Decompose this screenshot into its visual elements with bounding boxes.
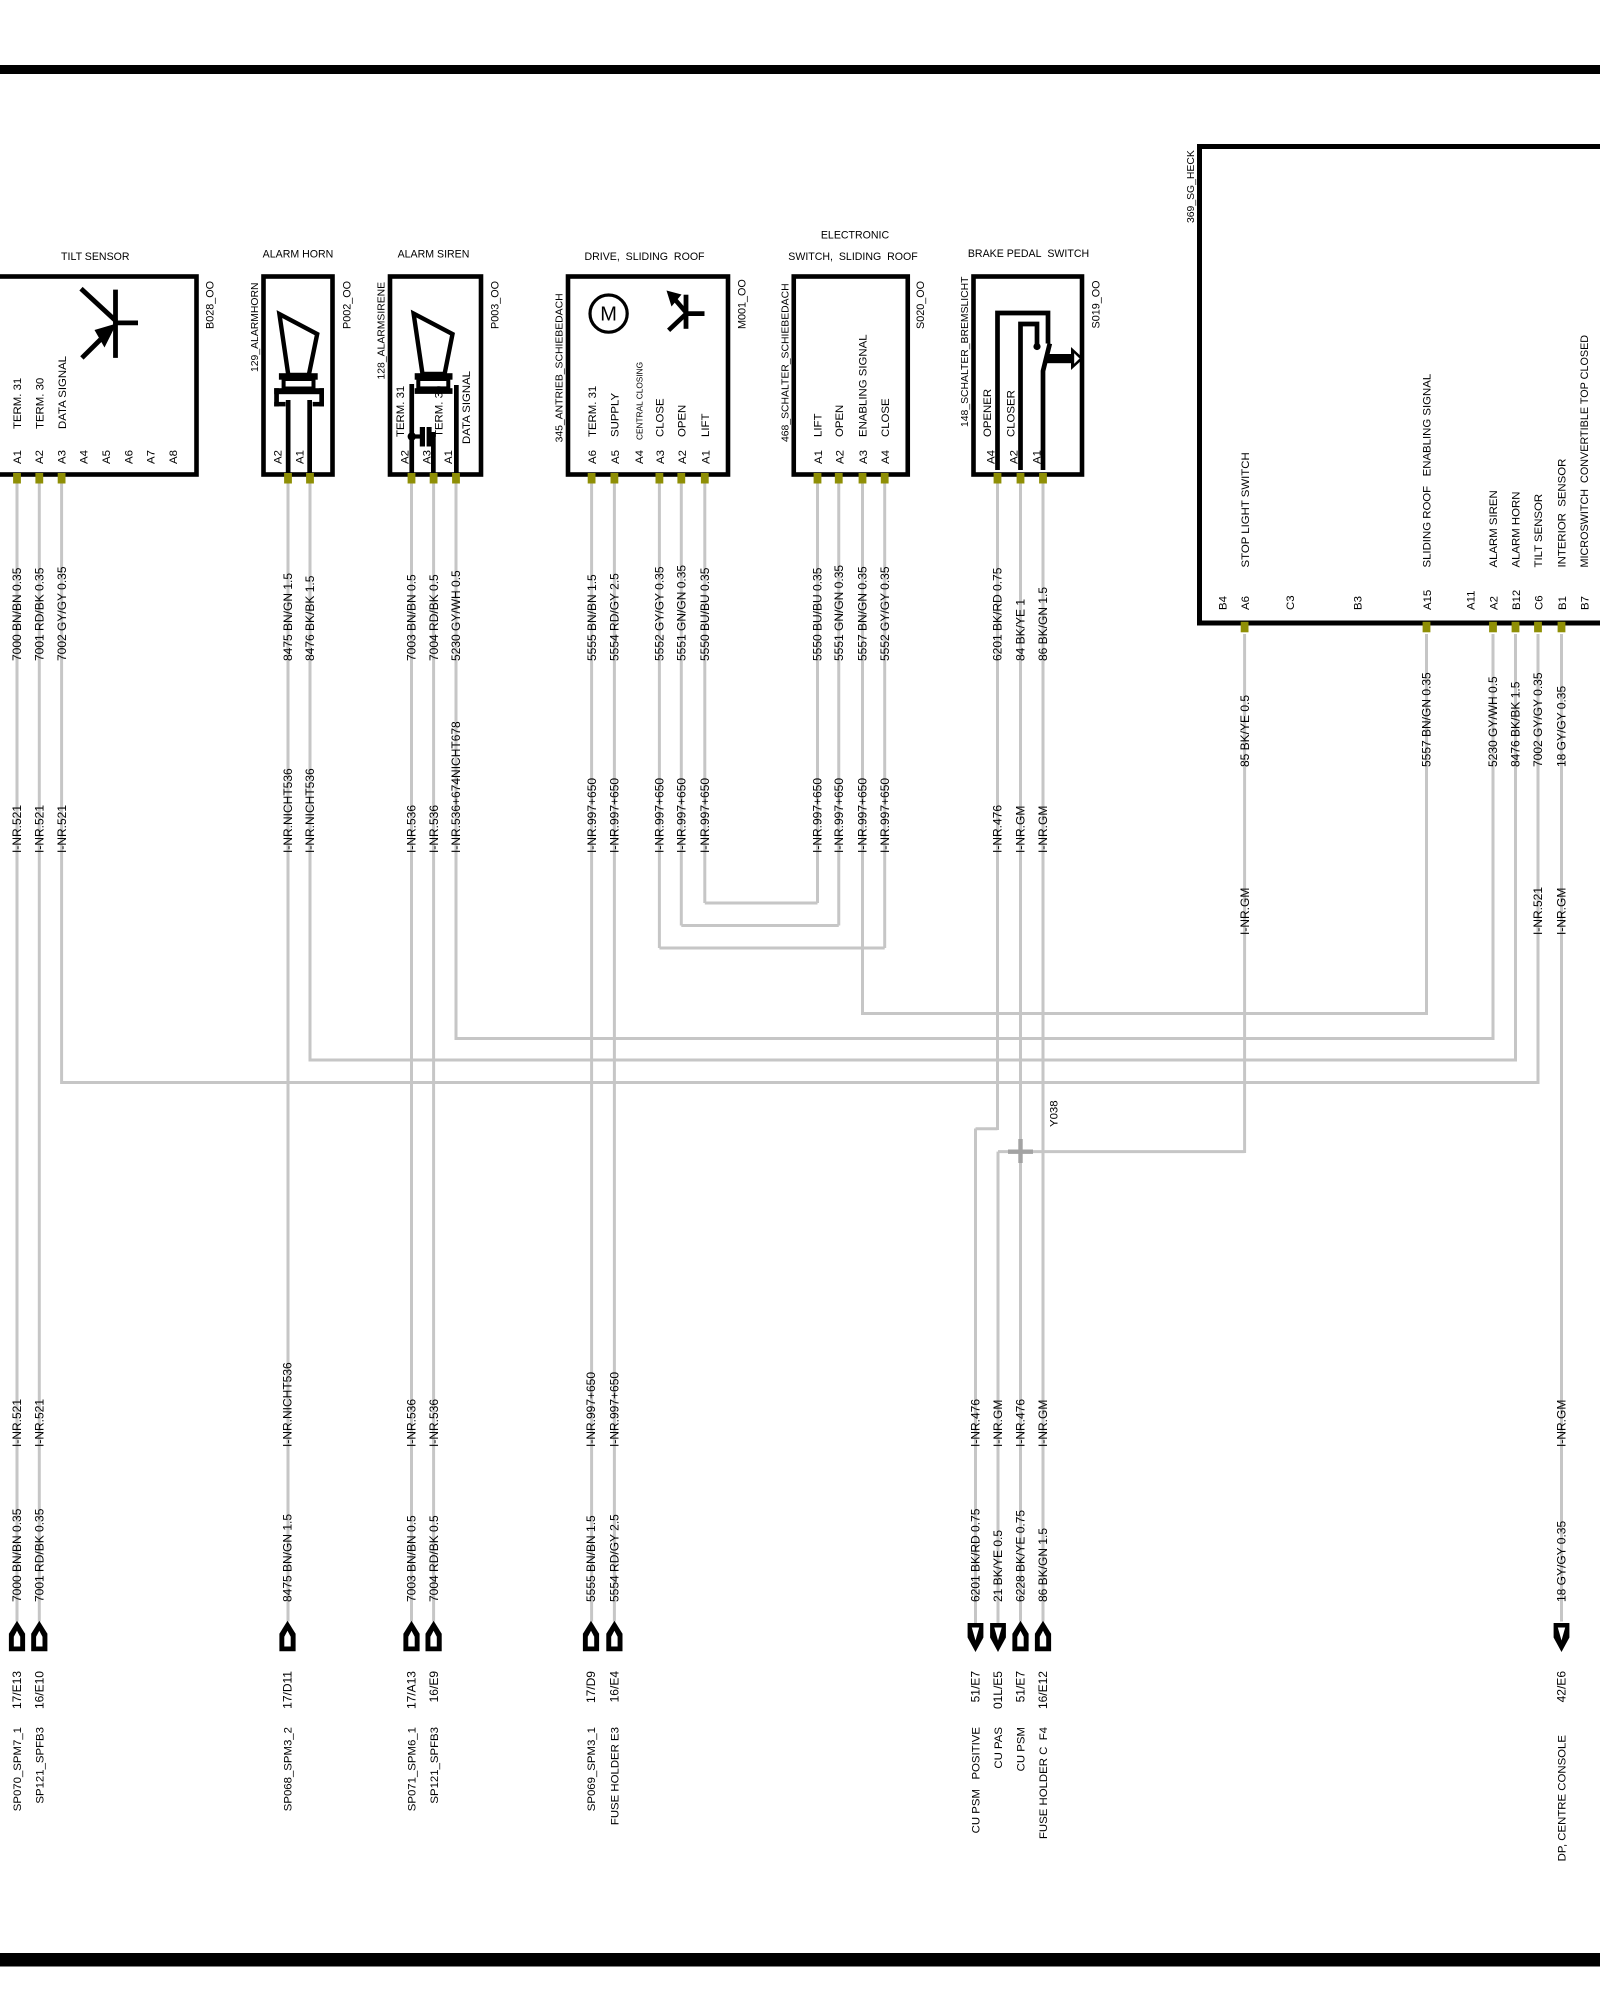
svg-text:C6: C6 <box>1534 595 1546 610</box>
svg-text:B4: B4 <box>1218 596 1230 610</box>
svg-text:6201 BK/RD 0.75: 6201 BK/RD 0.75 <box>969 1508 983 1602</box>
switch pin A3 ENABLING SIGNAL <box>858 334 870 464</box>
connector arrow out <box>1035 1621 1051 1652</box>
svg-text:FUSE HOLDER C F4: FUSE HOLDER C F4 <box>1038 1727 1050 1839</box>
svg-text:I-NR.997+650: I-NR.997+650 <box>584 1372 598 1447</box>
switch pin stubs <box>814 473 889 484</box>
svg-text:TERM. 30: TERM. 30 <box>434 386 446 437</box>
svg-text:5230 GY/WH 0.5: 5230 GY/WH 0.5 <box>449 570 463 661</box>
wire bus OPEN drive A2 to switch A2 <box>681 924 838 927</box>
svg-text:OPEN: OPEN <box>834 405 846 437</box>
svg-text:51/E7: 51/E7 <box>969 1671 983 1703</box>
connector arrow out <box>279 1621 295 1652</box>
drive pin A2 OPEN <box>677 405 689 464</box>
wire 6201 BK/RD lower drop <box>974 1129 977 1624</box>
svg-text:DATA SIGNAL: DATA SIGNAL <box>57 356 69 429</box>
svg-text:51/E7: 51/E7 <box>1014 1671 1028 1703</box>
svg-text:7002 GY/GY 0.35: 7002 GY/GY 0.35 <box>1531 672 1545 767</box>
svg-text:I-NR.536: I-NR.536 <box>405 1399 419 1447</box>
svg-text:17/D11: 17/D11 <box>281 1671 295 1709</box>
wire bus DATA SIGNAL siren A1 to ecu A2 <box>456 1037 1493 1040</box>
connector arrow in <box>968 1623 984 1652</box>
svg-text:42/E6: 42/E6 <box>1555 1671 1569 1703</box>
svg-text:I-NR.521: I-NR.521 <box>1531 887 1545 935</box>
svg-text:86 BK/GN 1.5: 86 BK/GN 1.5 <box>1036 1528 1050 1602</box>
wire bus 7002 tilt A3 to ecu C6 <box>62 1081 1538 1084</box>
svg-text:CENTRAL CLOSING: CENTRAL CLOSING <box>635 362 645 440</box>
svg-text:A4: A4 <box>634 450 646 464</box>
connector arrow in <box>990 1623 1006 1652</box>
switch pin A1 LIFT <box>813 414 825 464</box>
svg-text:16/E9: 16/E9 <box>427 1671 441 1703</box>
svg-text:I-NR.476: I-NR.476 <box>1014 1399 1028 1447</box>
wire 8475 BN/GN horn A2 <box>287 480 290 1622</box>
svg-text:21 BK/YE 0.5: 21 BK/YE 0.5 <box>991 1530 1005 1602</box>
svg-text:7004 RD/BK 0.5: 7004 RD/BK 0.5 <box>427 574 441 661</box>
svg-text:7000 BN/BN 0.35: 7000 BN/BN 0.35 <box>10 1508 24 1602</box>
svg-text:A2: A2 <box>273 450 285 464</box>
svg-text:5557 BN/GN 0.35: 5557 BN/GN 0.35 <box>1420 672 1434 767</box>
svg-text:84 BK/YE 1: 84 BK/YE 1 <box>1014 599 1028 661</box>
connector arrow out <box>426 1621 442 1652</box>
svg-text:SP121_SPFB3: SP121_SPFB3 <box>35 1727 47 1804</box>
tilt sensor B028 box <box>0 277 197 475</box>
control unit pin B12 <box>1511 492 1523 610</box>
wire 5552 GY/GY drive A3 drop <box>658 480 661 948</box>
svg-text:01L/E5: 01L/E5 <box>991 1671 1005 1709</box>
svg-text:A8: A8 <box>168 450 180 464</box>
svg-text:CU PAS: CU PAS <box>993 1727 1005 1769</box>
tilt sensor pin A5 <box>101 450 113 464</box>
svg-text:86 BK/GN 1.5: 86 BK/GN 1.5 <box>1036 587 1050 661</box>
tilt sensor pin A4 <box>79 450 91 464</box>
svg-text:Y038: Y038 <box>1049 1100 1061 1127</box>
brake switch actuation arrow <box>1047 347 1084 370</box>
svg-text:17/D9: 17/D9 <box>584 1671 598 1703</box>
wire 21 BK/YE lower drop <box>997 1152 1000 1623</box>
svg-text:I-NR.GM: I-NR.GM <box>1014 806 1028 853</box>
tilt sensor pin A2 <box>34 378 46 464</box>
wire bus ENABLING SIGNAL switch A3 to ecu A15 <box>863 1012 1427 1015</box>
brake pin A2 CLOSER <box>1006 390 1021 464</box>
svg-text:A1: A1 <box>813 450 825 464</box>
svg-text:345_ANTRIEB_SCHIEBEDACH: 345_ANTRIEB_SCHIEBEDACH <box>555 293 566 442</box>
svg-text:148_SCHALTER_BREMSLICHT: 148_SCHALTER_BREMSLICHT <box>960 276 971 427</box>
connector arrow out <box>1012 1621 1028 1652</box>
svg-text:LIFT: LIFT <box>700 414 712 437</box>
svg-text:SP070_SPM7_1: SP070_SPM7_1 <box>12 1727 24 1811</box>
svg-text:I-NR.GM: I-NR.GM <box>1555 1400 1569 1447</box>
bottom border bar <box>0 1953 1600 1967</box>
wire 7001 RD/BK tilt A2 <box>38 480 41 1622</box>
control unit pin B3 <box>1353 596 1365 610</box>
wire 86 BK/GN brake A1 <box>1042 480 1045 1622</box>
drive tilt symbol <box>667 291 705 331</box>
control unit pin stubs <box>1241 622 1566 633</box>
svg-text:I-NR.521: I-NR.521 <box>33 805 47 853</box>
svg-text:A1: A1 <box>1032 450 1044 464</box>
svg-text:A6: A6 <box>123 450 135 464</box>
alarm horn icon <box>274 314 324 474</box>
brake pedal switch S019 box <box>974 277 1083 475</box>
svg-text:ALARM HORN: ALARM HORN <box>1511 492 1523 568</box>
svg-text:I-NR.NICHT536: I-NR.NICHT536 <box>303 768 317 853</box>
wire jog brake A4 to lower 6201 drop <box>976 1127 998 1130</box>
svg-text:A2: A2 <box>834 450 846 464</box>
svg-text:A6: A6 <box>1240 596 1252 610</box>
svg-text:I-NR.521: I-NR.521 <box>33 1399 47 1447</box>
svg-text:17/E13: 17/E13 <box>10 1671 24 1709</box>
wire 5557 BN/GN ecu A15 drop <box>1425 634 1428 1015</box>
svg-text:TERM. 31: TERM. 31 <box>12 378 24 429</box>
connector arrow out <box>606 1621 622 1652</box>
svg-text:A5: A5 <box>610 450 622 464</box>
svg-text:I-NR.521: I-NR.521 <box>10 805 24 853</box>
svg-text:16/E12: 16/E12 <box>1036 1671 1050 1709</box>
wire bus CLOSE drive A3 to switch A4 <box>659 947 884 950</box>
control unit pin C6 <box>1533 494 1545 610</box>
svg-text:8476 BK/BK 1.5: 8476 BK/BK 1.5 <box>1509 681 1523 767</box>
alarm horn P002 box <box>264 277 333 475</box>
svg-text:I-NR.GM: I-NR.GM <box>1036 1400 1050 1447</box>
wire 7004 RD/BK siren A3 <box>432 480 435 1622</box>
alarm siren pin A2 TERM. 31 <box>395 386 412 464</box>
svg-text:DP, CENTRE CONSOLE: DP, CENTRE CONSOLE <box>1557 1735 1569 1862</box>
svg-text:ALARM HORN: ALARM HORN <box>263 249 334 261</box>
wire 5555 BN/BN drive A6 <box>590 480 593 1622</box>
svg-text:S019_OO: S019_OO <box>1091 280 1103 328</box>
wire 5230 GY/WH ecu A2 drop <box>1492 634 1495 1040</box>
svg-text:INTERIOR SENSOR: INTERIOR SENSOR <box>1557 459 1569 568</box>
svg-text:A4: A4 <box>79 450 91 464</box>
svg-text:M: M <box>600 304 617 326</box>
svg-text:A1: A1 <box>295 450 307 464</box>
svg-text:S020_OO: S020_OO <box>915 281 927 329</box>
svg-text:SP068_SPM3_2: SP068_SPM3_2 <box>283 1727 295 1811</box>
svg-text:I-NR.997+650: I-NR.997+650 <box>675 778 689 853</box>
tilt sensor pin A3 <box>56 356 68 464</box>
svg-text:STOP LIGHT SWITCH: STOP LIGHT SWITCH <box>1240 452 1252 567</box>
drive pin stubs <box>588 473 709 484</box>
tilt sensor pin A6 <box>123 450 135 464</box>
svg-text:6228 BK/YE 0.75: 6228 BK/YE 0.75 <box>1014 1510 1028 1602</box>
wire 5554 RD/GY drive A5 <box>613 480 616 1622</box>
svg-text:A1: A1 <box>700 450 712 464</box>
svg-text:7001 RD/BK 0.35: 7001 RD/BK 0.35 <box>33 567 47 661</box>
svg-text:I-NR.997+650: I-NR.997+650 <box>856 778 870 853</box>
svg-text:I-NR.GM: I-NR.GM <box>1555 888 1569 935</box>
svg-text:5552 GY/GY 0.35: 5552 GY/GY 0.35 <box>653 566 667 661</box>
drive pin A3 CLOSE <box>655 398 667 464</box>
svg-text:I-NR.NICHT536: I-NR.NICHT536 <box>281 768 295 853</box>
svg-text:DATA SIGNAL: DATA SIGNAL <box>461 371 473 444</box>
svg-text:SLIDING ROOF ENABLING SIGNAL: SLIDING ROOF ENABLING SIGNAL <box>1422 374 1434 568</box>
svg-text:TERM. 30: TERM. 30 <box>35 378 47 429</box>
svg-text:16/E4: 16/E4 <box>608 1671 622 1703</box>
svg-text:CU PSM: CU PSM <box>1016 1727 1028 1771</box>
svg-text:I-NR.GM: I-NR.GM <box>1036 806 1050 853</box>
alarm siren icon <box>408 314 459 473</box>
svg-text:5550 BU/BU 0.35: 5550 BU/BU 0.35 <box>811 567 825 661</box>
svg-text:TERM. 31: TERM. 31 <box>587 386 599 437</box>
tilt sensor pin A7 <box>146 450 158 464</box>
svg-text:7003 BN/BN 0.5: 7003 BN/BN 0.5 <box>405 574 419 661</box>
svg-text:ALARM SIREN: ALARM SIREN <box>1488 490 1500 567</box>
svg-text:A3: A3 <box>56 450 68 464</box>
svg-text:CLOSE: CLOSE <box>655 398 667 437</box>
svg-text:I-NR.521: I-NR.521 <box>10 1399 24 1447</box>
alarm siren pin A1 DATA SIGNAL <box>443 371 473 464</box>
svg-text:I-NR.536: I-NR.536 <box>427 1399 441 1447</box>
svg-text:I-NR.997+650: I-NR.997+650 <box>698 778 712 853</box>
svg-text:I-NR.997+650: I-NR.997+650 <box>811 778 825 853</box>
alarm horn pin stubs <box>284 473 314 484</box>
drive pin A4 CENTRAL CLOSING <box>634 362 646 464</box>
svg-text:128_ALARMSIRENE: 128_ALARMSIRENE <box>377 282 388 380</box>
svg-text:I-NR.536: I-NR.536 <box>405 805 419 853</box>
svg-text:I-NR.521: I-NR.521 <box>55 805 69 853</box>
brake pin A4 OPENER <box>982 389 998 464</box>
svg-text:I-NR.997+650: I-NR.997+650 <box>608 778 622 853</box>
alarm siren pin stubs <box>408 473 460 484</box>
svg-text:BRAKE PEDAL SWITCH: BRAKE PEDAL SWITCH <box>968 248 1089 260</box>
wire 5551 GN/GN switch A2 drop <box>837 480 840 926</box>
svg-text:5557 BN/GN 0.35: 5557 BN/GN 0.35 <box>856 566 870 661</box>
svg-text:A4: A4 <box>880 450 892 464</box>
wire 7003 BN/BN siren A2 <box>410 480 413 1622</box>
wire 6201 BK/RD brake A4 drop <box>996 480 999 1130</box>
svg-text:I-NR.997+650: I-NR.997+650 <box>608 1372 622 1447</box>
svg-text:5230 GY/WH 0.5: 5230 GY/WH 0.5 <box>1486 676 1500 767</box>
svg-text:SP071_SPM6_1: SP071_SPM6_1 <box>407 1727 419 1811</box>
svg-text:7000 BN/BN 0.35: 7000 BN/BN 0.35 <box>10 567 24 661</box>
svg-text:I-NR.997+650: I-NR.997+650 <box>585 778 599 853</box>
svg-text:TILT SENSOR: TILT SENSOR <box>61 251 130 263</box>
svg-text:7003 BN/BN 0.5: 7003 BN/BN 0.5 <box>405 1515 419 1602</box>
svg-text:5554 RD/GY 2.5: 5554 RD/GY 2.5 <box>608 573 622 661</box>
svg-text:5555 BN/BN 1.5: 5555 BN/BN 1.5 <box>585 574 599 661</box>
svg-text:5555 BN/BN 1.5: 5555 BN/BN 1.5 <box>584 1515 598 1602</box>
sliding roof switch S020 box <box>794 277 908 475</box>
wire 8476 BK/BK ecu B12 drop <box>1514 634 1517 1062</box>
svg-text:I-NR.997+650: I-NR.997+650 <box>832 778 846 853</box>
svg-text:I-NR.536: I-NR.536 <box>427 805 441 853</box>
connector arrow out <box>583 1621 599 1652</box>
svg-text:8476 BK/BK 1.5: 8476 BK/BK 1.5 <box>303 575 317 661</box>
svg-text:P003_OO: P003_OO <box>490 281 502 329</box>
svg-text:I-NR.NICHT536: I-NR.NICHT536 <box>281 1362 295 1447</box>
svg-text:18 GY/GY 0.35: 18 GY/GY 0.35 <box>1555 1521 1569 1602</box>
svg-text:I-NR.997+650: I-NR.997+650 <box>878 778 892 853</box>
svg-text:CLOSE: CLOSE <box>880 398 892 437</box>
wire 5551 GN/GN drive A2 drop <box>680 480 683 926</box>
brake switch contact dot <box>1033 343 1040 350</box>
sliding roof drive M001 box <box>568 277 728 475</box>
switch pin A2 OPEN <box>834 405 846 464</box>
svg-text:SWITCH, SLIDING ROOF: SWITCH, SLIDING ROOF <box>788 251 918 263</box>
control unit pin A11 <box>1466 591 1478 610</box>
wire 18 GY/GY ecu B1 <box>1560 634 1563 1622</box>
tilt sensor pin A1 <box>12 378 24 464</box>
wire 5557 BN/GN switch A3 drop <box>861 480 864 1015</box>
svg-text:8475 BN/GN 1.5: 8475 BN/GN 1.5 <box>281 1514 295 1602</box>
control unit pin B4 <box>1218 596 1230 610</box>
connector arrow out <box>31 1621 47 1652</box>
svg-text:B12: B12 <box>1511 590 1523 610</box>
wire 5550 BU/BU switch A1 drop <box>816 480 819 903</box>
svg-text:B1: B1 <box>1557 596 1569 610</box>
svg-text:8475 BN/GN 1.5: 8475 BN/GN 1.5 <box>281 573 295 661</box>
control unit pin A2 <box>1488 490 1500 610</box>
svg-text:TERM. 31: TERM. 31 <box>395 386 407 437</box>
svg-text:B028_OO: B028_OO <box>205 281 217 329</box>
connector arrow in <box>1554 1623 1570 1652</box>
svg-text:B3: B3 <box>1353 596 1365 610</box>
connector arrow out <box>9 1621 25 1652</box>
svg-text:5550 BU/BU 0.35: 5550 BU/BU 0.35 <box>698 567 712 661</box>
switch pin A4 CLOSE <box>880 398 892 464</box>
svg-text:FUSE HOLDER E3: FUSE HOLDER E3 <box>610 1727 622 1825</box>
svg-text:I-NR.536+674NICHT678: I-NR.536+674NICHT678 <box>449 721 463 853</box>
control unit pin B1 <box>1557 459 1569 610</box>
svg-text:A3: A3 <box>422 450 434 464</box>
svg-text:CU PSM POSITIVE: CU PSM POSITIVE <box>971 1727 983 1834</box>
svg-text:LIFT: LIFT <box>813 414 825 437</box>
svg-text:OPEN: OPEN <box>677 405 689 437</box>
svg-text:I-NR.GM: I-NR.GM <box>991 1400 1005 1447</box>
svg-text:I-NR.GM: I-NR.GM <box>1238 888 1252 935</box>
wire 7000 BN/BN tilt A1 <box>16 480 19 1622</box>
tilt sensor pin A8 <box>168 450 180 464</box>
svg-text:A1: A1 <box>443 450 455 464</box>
wire 5230 GY/WH siren A1 drop <box>455 480 458 1040</box>
svg-text:B7: B7 <box>1579 596 1591 610</box>
wire 7002 GY/GY tilt A3 drop <box>60 480 63 1084</box>
tilt sensor pin stubs <box>13 473 65 484</box>
svg-text:ENABLING SIGNAL: ENABLING SIGNAL <box>858 334 870 437</box>
svg-text:A2: A2 <box>1009 450 1021 464</box>
svg-text:TILT SENSOR: TILT SENSOR <box>1533 494 1545 568</box>
svg-text:A4: A4 <box>986 450 998 464</box>
wire 85 BK/YE ecu A6 drop <box>1243 634 1246 1153</box>
svg-text:A2: A2 <box>34 450 46 464</box>
svg-text:SP069_SPM3_1: SP069_SPM3_1 <box>586 1727 598 1811</box>
control unit pin A15 <box>1422 374 1434 610</box>
svg-text:5551 GN/GN 0.35: 5551 GN/GN 0.35 <box>832 565 846 661</box>
connector arrow out <box>403 1621 419 1652</box>
wire 5552 GY/GY switch A4 drop <box>883 480 886 948</box>
wire 8476 BK/BK horn A1 drop <box>309 480 312 1062</box>
tilt sensor icon <box>81 289 138 358</box>
svg-text:16/E10: 16/E10 <box>33 1671 47 1709</box>
svg-text:CLOSER: CLOSER <box>1006 390 1018 437</box>
svg-text:P002_OO: P002_OO <box>342 281 354 329</box>
control unit pin B7 <box>1579 335 1591 610</box>
brake switch contacts icon <box>998 313 1050 470</box>
svg-text:18 GY/GY 0.35: 18 GY/GY 0.35 <box>1555 686 1569 767</box>
svg-text:SUPPLY: SUPPLY <box>610 392 622 437</box>
wire bus Y038 junction rail <box>998 1150 1245 1153</box>
motor M symbol <box>590 295 627 332</box>
svg-text:7001 RD/BK 0.35: 7001 RD/BK 0.35 <box>33 1508 47 1602</box>
svg-text:5554 RD/GY 2.5: 5554 RD/GY 2.5 <box>608 1514 622 1602</box>
control unit pin A6 <box>1240 452 1252 610</box>
svg-text:6201 BK/RD 0.75: 6201 BK/RD 0.75 <box>991 567 1005 661</box>
svg-text:A15: A15 <box>1422 590 1434 610</box>
svg-text:I-NR.476: I-NR.476 <box>991 805 1005 853</box>
svg-text:C3: C3 <box>1285 595 1297 610</box>
wire 5550 BU/BU drive A1 drop <box>703 480 706 903</box>
svg-text:A1: A1 <box>12 450 24 464</box>
control unit pin C3 <box>1285 595 1297 610</box>
svg-text:A2: A2 <box>400 450 412 464</box>
svg-text:I-NR.997+650: I-NR.997+650 <box>653 778 667 853</box>
svg-text:7004 RD/BK 0.5: 7004 RD/BK 0.5 <box>427 1515 441 1602</box>
svg-text:A7: A7 <box>146 450 158 464</box>
svg-text:369_SG_HECK: 369_SG_HECK <box>1186 150 1197 223</box>
svg-text:5551 GN/GN 0.35: 5551 GN/GN 0.35 <box>675 565 689 661</box>
svg-text:17/A13: 17/A13 <box>405 1671 419 1709</box>
drive pin A5 SUPPLY <box>610 392 622 464</box>
drive pin A1 LIFT <box>700 414 712 464</box>
svg-text:129_ALARMHORN: 129_ALARMHORN <box>250 282 261 372</box>
svg-text:ALARM SIREN: ALARM SIREN <box>398 249 470 261</box>
svg-text:5552 GY/GY 0.35: 5552 GY/GY 0.35 <box>878 566 892 661</box>
wire bus 8476 horn A1 to ecu B12 <box>310 1059 1516 1062</box>
svg-text:85 BK/YE 0.5: 85 BK/YE 0.5 <box>1238 695 1252 767</box>
svg-text:A5: A5 <box>101 450 113 464</box>
svg-text:A2: A2 <box>677 450 689 464</box>
svg-text:A3: A3 <box>655 450 667 464</box>
control unit 369_SG_HECK box <box>1200 147 1600 624</box>
drive pin A6 TERM. 31 <box>587 386 599 464</box>
svg-text:A11: A11 <box>1466 591 1478 610</box>
wire bus LIFT drive A1 to switch A1 <box>705 902 818 905</box>
svg-text:A3: A3 <box>858 450 870 464</box>
alarm siren pin A3 TERM. 30 <box>422 386 446 464</box>
svg-text:I-NR.476: I-NR.476 <box>969 1399 983 1447</box>
svg-text:7002 GY/GY 0.35: 7002 GY/GY 0.35 <box>55 566 69 661</box>
svg-text:A2: A2 <box>1489 596 1501 610</box>
wire 84 BK/YE brake A2 and 6228 BK/YE run <box>1019 480 1022 1622</box>
junction Y038 cross <box>1008 1139 1033 1163</box>
svg-text:M001_OO: M001_OO <box>737 279 749 329</box>
top border bar <box>0 65 1600 74</box>
svg-text:ELECTRONIC: ELECTRONIC <box>821 230 890 242</box>
svg-text:SP121_SPFB3: SP121_SPFB3 <box>429 1727 441 1804</box>
svg-text:DRIVE, SLIDING ROOF: DRIVE, SLIDING ROOF <box>584 251 705 263</box>
svg-text:A6: A6 <box>587 450 599 464</box>
wire 7002 GY/GY ecu C6 drop <box>1537 634 1540 1084</box>
alarm siren P003 box <box>390 277 481 475</box>
brake pin stubs <box>994 473 1047 484</box>
svg-text:MICROSWITCH CONVERTIBLE TOP C: MICROSWITCH CONVERTIBLE TOP CLOSED <box>1579 335 1591 568</box>
svg-text:468_SCHALTER_SCHIEBEDACH: 468_SCHALTER_SCHIEBEDACH <box>780 283 791 442</box>
svg-text:OPENER: OPENER <box>982 389 994 437</box>
